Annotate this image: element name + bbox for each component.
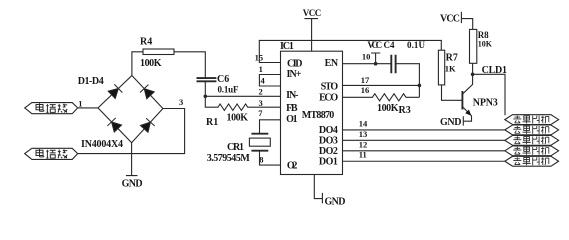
svg-text:IC1: IC1 (280, 41, 294, 52)
svg-text:13: 13 (359, 129, 368, 139)
svg-text:11: 11 (359, 150, 367, 160)
svg-text:10: 10 (362, 51, 371, 61)
svg-text:3.579545M: 3.579545M (207, 153, 251, 164)
svg-text:DO3: DO3 (319, 136, 338, 147)
svg-text:R4: R4 (140, 37, 152, 48)
svg-text:1: 1 (259, 64, 263, 74)
svg-text:R3: R3 (399, 105, 411, 116)
svg-text:0.1uF: 0.1uF (218, 85, 240, 95)
svg-text:100K: 100K (377, 103, 399, 114)
svg-text:EN: EN (325, 58, 339, 69)
svg-text:GND: GND (440, 117, 462, 128)
svg-text:MT8870: MT8870 (302, 110, 335, 121)
svg-text:3: 3 (259, 98, 263, 108)
svg-text:100K: 100K (140, 58, 162, 69)
svg-text:17: 17 (361, 75, 370, 85)
svg-text:10K: 10K (478, 40, 493, 49)
svg-text:R1: R1 (206, 117, 218, 128)
svg-text:FB: FB (286, 103, 298, 114)
svg-text:NPN3: NPN3 (473, 98, 498, 109)
svg-text:O2: O2 (287, 161, 298, 172)
svg-text:14: 14 (359, 118, 368, 128)
svg-text:12: 12 (359, 139, 368, 149)
svg-text:1K: 1K (445, 64, 456, 74)
svg-text:O1: O1 (286, 114, 298, 125)
svg-text:VCC: VCC (440, 14, 460, 25)
svg-text:7: 7 (258, 108, 263, 118)
svg-text:CR1: CR1 (227, 142, 244, 153)
svg-text:16: 16 (361, 85, 370, 95)
svg-text:R7: R7 (446, 53, 458, 64)
svg-text:DO4: DO4 (319, 125, 338, 136)
svg-text:4: 4 (261, 75, 266, 85)
svg-text:1: 1 (78, 99, 82, 109)
svg-text:IN+: IN+ (287, 69, 302, 80)
svg-text:ECO: ECO (319, 92, 338, 103)
svg-text:GND: GND (325, 196, 346, 207)
svg-text:0.1U: 0.1U (407, 40, 426, 50)
svg-text:IN4004X4: IN4004X4 (81, 139, 123, 150)
svg-text:CID: CID (287, 58, 303, 69)
svg-text:100K: 100K (227, 113, 249, 124)
svg-text:DO1: DO1 (319, 157, 338, 168)
svg-text:VCC: VCC (303, 8, 322, 18)
svg-text:IN-: IN- (286, 90, 298, 101)
svg-text:STO: STO (321, 82, 339, 93)
svg-text:D1-D4: D1-D4 (78, 76, 104, 87)
svg-text:DO2: DO2 (319, 146, 338, 157)
svg-text:2: 2 (259, 87, 263, 97)
svg-text:3: 3 (179, 97, 183, 107)
svg-text:VCC: VCC (367, 40, 382, 50)
svg-text:GND: GND (122, 179, 143, 190)
svg-text:C6: C6 (217, 74, 229, 85)
svg-text:C4: C4 (384, 40, 395, 50)
svg-text:15: 15 (255, 52, 264, 62)
svg-text:R8: R8 (478, 30, 489, 40)
